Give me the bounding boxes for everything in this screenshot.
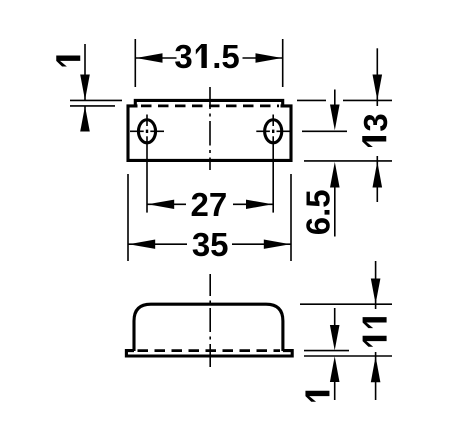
svg-text:3: 3 [174, 38, 192, 75]
svg-text:27: 27 [191, 186, 228, 223]
svg-text:3: 3 [357, 113, 394, 131]
svg-text:6.5: 6.5 [299, 189, 336, 235]
svg-text:35: 35 [192, 226, 229, 263]
svg-text:.5: .5 [212, 38, 240, 75]
